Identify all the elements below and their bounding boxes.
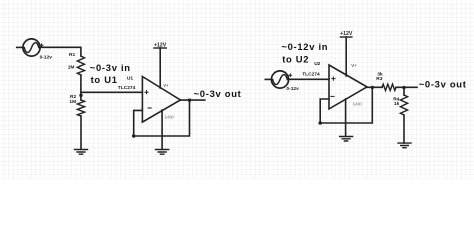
node A junction dot (79, 94, 82, 97)
svg-text:~0-3v out: ~0-3v out (419, 78, 467, 89)
svg-text:to U2: to U2 (282, 53, 309, 64)
junction dot U1 feedback corner (132, 134, 135, 137)
+12V supply (U2) (340, 37, 352, 76)
resistor R3 (382, 84, 396, 90)
svg-text:U1: U1 (127, 75, 133, 81)
ground (U2) (340, 137, 353, 142)
wire R3 to node B (396, 86, 417, 88)
svg-text:1M: 1M (69, 99, 76, 105)
svg-text:GND: GND (165, 114, 174, 119)
AC source V2 (271, 71, 291, 88)
op-amp U1 (142, 77, 180, 123)
wire node A to U1 + input (81, 91, 142, 93)
svg-text:+12V: +12V (340, 31, 353, 37)
svg-text:+12V: +12V (154, 43, 167, 49)
wire R4 to ground (403, 115, 405, 143)
resistor R2 (77, 100, 84, 116)
wire R1 to node A (80, 75, 82, 100)
wire V2 to U2 + input (289, 78, 329, 80)
resistor R4 (400, 95, 407, 115)
svg-text:TLC274: TLC274 (118, 85, 136, 91)
junction dot U2 feedback corner (319, 121, 322, 124)
wire V2 left stub (265, 78, 271, 80)
svg-text:~0-3v out: ~0-3v out (194, 88, 242, 99)
svg-text:TLC274: TLC274 (302, 72, 320, 78)
wire node B to R4 (403, 88, 405, 95)
svg-text:~0-3v in: ~0-3v in (90, 62, 131, 73)
svg-text:1M: 1M (68, 65, 75, 71)
wire V1 left stub (17, 46, 23, 48)
wire U2 feedback (320, 87, 372, 123)
ground (R2) (75, 150, 88, 155)
resistor R1 (77, 56, 84, 75)
svg-text:0-12v: 0-12v (40, 55, 53, 61)
svg-text:R1: R1 (69, 52, 75, 58)
svg-text:V+: V+ (163, 83, 169, 88)
AC source V1 (23, 39, 43, 56)
svg-text:~0-12v in: ~0-12v in (281, 41, 328, 52)
+12V supply (U1) (154, 48, 166, 88)
svg-text:to U1: to U1 (91, 74, 118, 85)
wire R2 to ground (80, 116, 82, 149)
wire U2 output to R3 (367, 86, 382, 88)
op-amp U2 (329, 65, 367, 109)
wire U1 feedback (134, 100, 190, 136)
svg-text:U2: U2 (314, 61, 320, 67)
svg-text:0-12v: 0-12v (286, 86, 299, 92)
junction dot U2 output (371, 86, 374, 89)
wire U1 GND pin to ground (161, 110, 163, 149)
wire U2 GND pin to ground (345, 99, 347, 136)
svg-text:1k: 1k (394, 101, 400, 107)
ground (R4) (398, 143, 411, 148)
node B junction dot (402, 86, 405, 89)
svg-text:GND: GND (353, 101, 362, 106)
svg-text:V+: V+ (351, 63, 357, 68)
ground (U1) (156, 150, 169, 155)
junction dot U1 output (188, 99, 191, 102)
svg-text:R3: R3 (376, 76, 382, 82)
wire V1 to R1 (40, 47, 81, 56)
wire U1 output (180, 99, 204, 101)
